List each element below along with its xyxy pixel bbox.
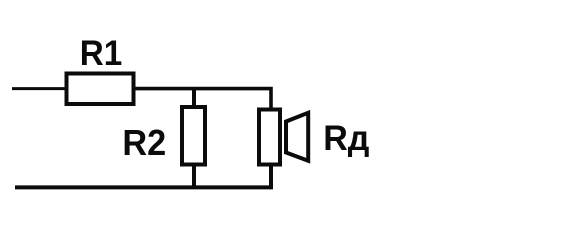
svg-text:R2: R2 (122, 122, 166, 163)
wire stub from R2 down to bottom wire (192, 164, 196, 188)
wire left lead into R1 (12, 87, 66, 90)
speaker Rд horn (286, 113, 308, 161)
resistor R2 (182, 107, 205, 165)
svg-text:Rд: Rд (323, 118, 369, 158)
bottom wire with corner up to speaker (15, 164, 271, 187)
svg-text:R1: R1 (80, 34, 123, 73)
wire stub from top wire down to R2 (192, 87, 196, 108)
wire from R1 to speaker branch with corner down (135, 89, 271, 109)
speaker Rд body rectangle (259, 110, 280, 165)
resistor R1 (67, 74, 134, 105)
